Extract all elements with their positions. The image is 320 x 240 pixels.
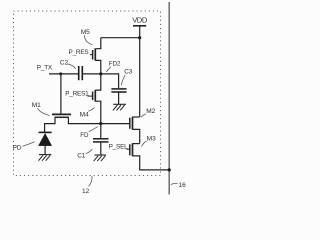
svg-text:VDD: VDD [132, 16, 148, 25]
photodiode PD [39, 132, 52, 154]
svg-text:12: 12 [82, 188, 90, 195]
VDD power rail bar [133, 25, 146, 27]
label M4 [80, 108, 95, 119]
label 16 (column line reference) [171, 182, 186, 189]
transistor M3 (row select) [130, 143, 169, 170]
label FD [80, 127, 98, 140]
node junction P_TX / M1 gate [59, 72, 62, 75]
svg-text:16: 16 [179, 182, 187, 189]
label M3 [142, 135, 157, 146]
ground (under PD) [39, 155, 52, 161]
wire FD node to M2 gate [101, 123, 130, 125]
label M2 [141, 108, 156, 117]
wire P_TX node down to M1 gate [60, 74, 62, 114]
label C3 [121, 69, 133, 86]
svg-text:C2: C2 [60, 59, 69, 66]
pixel cell dashed boundary box 12 [14, 11, 161, 176]
svg-text:P_TX: P_TX [37, 65, 53, 72]
svg-text:M1: M1 [32, 102, 41, 109]
label FD2 [106, 61, 121, 72]
label 12 (cell reference) [82, 176, 92, 195]
svg-text:P_SEL: P_SEL [109, 144, 129, 151]
label M5 [81, 29, 93, 45]
wire C1 to ground [100, 142, 102, 154]
wire FD2 node to C3 [101, 74, 119, 88]
capacitor C1 [93, 139, 109, 142]
node junction VDD [138, 36, 141, 39]
column output line 16 [168, 2, 170, 195]
label C2 [60, 59, 76, 68]
wire P_RES1 to M4 gate [88, 95, 93, 97]
ground (under C1) [94, 155, 106, 161]
wire FD node down to C1 [100, 124, 102, 139]
svg-text:C1: C1 [77, 153, 86, 160]
wire C3 to ground [118, 93, 120, 105]
wire C2 to FD2 node [83, 73, 101, 75]
capacitor C3 [111, 89, 126, 92]
transistor M5 (reset) [93, 38, 101, 74]
svg-text:FD2: FD2 [109, 61, 121, 68]
wire P_SEL to M3 gate [127, 148, 130, 150]
capacitor C2 [79, 66, 83, 80]
svg-text:M4: M4 [80, 112, 89, 119]
svg-text:M5: M5 [81, 29, 90, 36]
svg-text:P_RES1: P_RES1 [65, 90, 89, 97]
svg-text:FD: FD [80, 132, 89, 139]
wire VDD stub down to junction [139, 26, 141, 38]
svg-text:P_RES: P_RES [69, 49, 89, 56]
wire VDD junction to M5 drain [101, 37, 140, 39]
node FD junction [99, 122, 102, 125]
svg-text:C3: C3 [124, 69, 133, 76]
transistor M2 (source follower) [130, 117, 140, 144]
wire P_RES to M5 gate [90, 54, 92, 56]
label PD [13, 142, 35, 152]
label C1 [77, 149, 92, 159]
ground (under C3) [113, 104, 126, 110]
node junction output to column line [168, 168, 171, 171]
svg-text:M2: M2 [146, 108, 155, 115]
svg-text:PD: PD [13, 144, 22, 151]
transistor M4 (second reset) [93, 74, 101, 123]
label M1 [32, 102, 50, 115]
svg-text:M3: M3 [147, 135, 156, 142]
wire VDD trunk down to M2 drain [139, 38, 141, 117]
wire P_TX to C2 [49, 73, 78, 75]
transistor M1 (transfer gate, rotated) [45, 114, 101, 132]
node FD2 junction [99, 72, 102, 75]
